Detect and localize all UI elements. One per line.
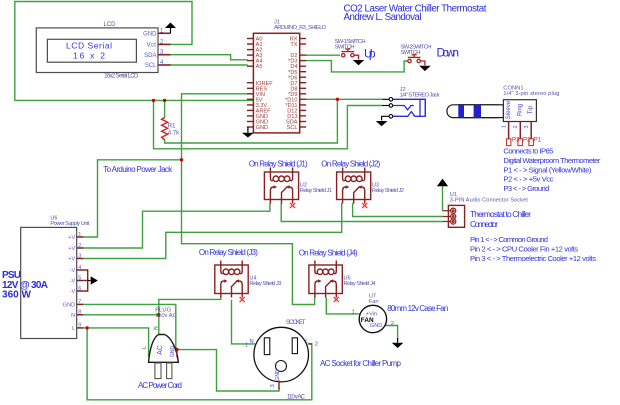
svg-text:1/4" 3-pin stereo plug: 1/4" 3-pin stereo plug [503,91,559,97]
svg-text:1: 1 [245,343,248,349]
wire D2 to SW1 [306,54,339,56]
PSU -V tie bracket [83,270,87,291]
svg-text:GND: GND [143,31,157,37]
wire VIN to PSU +V1 and relay J4 feed [182,94,315,305]
junction 5V rail / R1 [163,99,166,102]
svg-text:AC: AC [157,345,164,355]
svg-text:Pin 1 < - > Common Ground: Pin 1 < - > Common Ground [470,235,548,244]
Arduino pins [247,39,306,128]
svg-text:2: 2 [391,321,394,327]
svg-text:Andrew L. Sandoval: Andrew L. Sandoval [344,12,422,23]
LCD value text [66,41,112,61]
IC J1 ARDUINO_R3_SHIELD outline [253,33,299,133]
svg-text:P2: P2 [523,138,531,144]
svg-text:110v AC: 110v AC [155,313,176,319]
wire U1 pin1 to ground [442,187,444,211]
connector J2 1/4 stereo jack [382,98,393,121]
LCD module box [36,28,158,73]
wire plug GND to socket GND [178,350,279,391]
svg-text:Relay Shield J1: Relay Shield J1 [300,188,332,194]
svg-text:L: L [142,346,148,349]
wire relay J2 common to U1 pin2 [353,204,443,217]
svg-text:LCD Serial: LCD Serial [66,41,112,51]
wire PSU +V1 up [83,160,181,237]
svg-text:360 W: 360 W [2,289,32,300]
svg-text:GND: GND [275,369,281,381]
note PSU rating [2,270,48,300]
svg-text:1: 1 [352,310,355,316]
svg-text:On Relay Shield (J4): On Relay Shield (J4) [299,249,358,258]
svg-text:AC Power Cord: AC Power Cord [138,381,182,390]
svg-text:Power Supply Unit: Power Supply Unit [50,221,89,227]
svg-text:L: L [72,326,75,332]
svg-text:On Relay Shield (J3): On Relay Shield (J3) [199,248,258,257]
svg-text:To Arduino Power Jack: To Arduino Power Jack [103,165,173,174]
svg-text:LCD: LCD [104,22,117,28]
svg-text:N: N [250,339,254,345]
connector U1 3-pin audio socket [448,205,464,227]
svg-text:1: 1 [78,232,81,238]
relay U5 Relay Shield J4 [309,261,342,298]
ground symbol Arduino GND [242,127,254,138]
wire PSU L to plug L [83,328,148,356]
socket AC outlet [254,327,309,382]
switch SW1 [342,49,359,60]
relay U2 Relay Shield J1 [264,168,298,204]
wire D10 signal to jack tip [306,98,383,100]
svg-text:Ring: Ring [517,104,523,116]
svg-text:1/4" STEREO Jack: 1/4" STEREO Jack [400,93,440,99]
switch SW2 [408,55,425,66]
svg-text:P3: P3 [512,138,520,144]
svg-text:Tip: Tip [528,105,534,114]
note thermometer [503,147,600,194]
svg-text:Vcc: Vcc [146,43,156,49]
svg-text:7: 7 [78,299,81,305]
svg-text:3-PIN Audio Connector Socket: 3-PIN Audio Connector Socket [450,198,528,204]
svg-text:3: 3 [78,253,81,259]
wire signal branch to R1 [165,99,338,143]
svg-text:N: N [71,313,75,319]
wire R1 top to 5V rail [164,100,166,117]
ground symbol LCD GND [165,23,176,34]
svg-text:GND: GND [256,125,268,131]
svg-text:4: 4 [78,265,81,271]
wire LCD SCL to A5 [171,64,248,66]
socket GND stub [278,380,280,389]
relay U4 Relay Shield J3 [215,261,248,298]
svg-text:Sleeve: Sleeve [506,100,512,119]
wire relay J3 common to socket N [232,301,255,344]
junction plug GND [175,348,178,351]
svg-text:3: 3 [524,125,530,128]
svg-text:SOCKET: SOCKET [286,319,306,326]
svg-text:5: 5 [78,275,81,281]
svg-text:2: 2 [315,341,318,347]
CONN1 pins [509,122,532,139]
wire relay J3 contact to neutral [159,298,221,334]
svg-text:-V: -V [70,279,76,285]
ground symbol fan [392,338,404,348]
junction 5V rail / PSU branch [152,99,155,102]
svg-text:SDA: SDA [144,53,156,59]
svg-text:Up: Up [364,47,376,61]
junction D10 signal [336,98,339,101]
junction plug N [157,313,160,316]
svg-text:6: 6 [78,286,81,292]
svg-text:Relay Shield J4: Relay Shield J4 [344,281,376,287]
svg-text:SCL: SCL [287,125,298,131]
svg-text:4.7k: 4.7k [168,131,180,137]
wire D3 to SW2 [306,61,407,72]
wire relay J1 common to U1 pin3 [281,204,442,222]
ground symbol SW2 [419,66,431,71]
wire PSU N to plug N [83,314,159,316]
wire relay J4 common to fan pin1 [326,298,359,314]
svg-text:SWITCH: SWITCH [400,50,420,56]
wire fan pin2 to ground [386,326,397,340]
ground symbol SW1 [353,60,365,65]
resistor R1 4.7k [162,118,168,140]
svg-text:Fan: Fan [369,299,379,305]
CONN1 P sockets [506,139,533,146]
svg-text:Pin 2 < - > CPU Cooler Fin +12: Pin 2 < - > CPU Cooler Fin +12 volts [470,245,578,254]
connector CONN1 stereo plug [447,100,536,122]
ground symbol U1 (up) [437,179,448,187]
svg-text:A5: A5 [256,64,263,70]
svg-text:Relay Shield J2: Relay Shield J2 [372,188,404,194]
svg-text:P1 < - > Signal (Yellow/White): P1 < - > Signal (Yellow/White) [503,165,591,174]
junction PSU L [85,326,88,329]
relay U3 Relay Shield J2 [337,168,371,204]
svg-text:+V: +V [68,246,75,252]
svg-text:N: N [153,326,159,330]
svg-text:TX: TX [290,42,297,48]
svg-text:Pin 3 < - > Thermoelectric Coo: Pin 3 < - > Thermoelectric Cooler +12 vo… [470,254,596,263]
svg-text:ARDUINO_R3_SHIELD: ARDUINO_R3_SHIELD [274,25,326,31]
svg-text:+V: +V [68,235,75,241]
svg-text:P1: P1 [534,138,542,144]
svg-text:R1: R1 [168,124,176,130]
power supply U6 box [21,227,77,338]
svg-text:8: 8 [78,310,81,316]
svg-text:Digital Waterproom Thermometer: Digital Waterproom Thermometer [503,156,600,165]
svg-text:2: 2 [513,125,519,128]
svg-text:Relay Shield J3: Relay Shield J3 [249,281,281,287]
socket L stub [309,343,312,345]
svg-text:2: 2 [78,243,81,249]
wire LCD Vcc to Arduino 5V loop [15,2,254,101]
svg-text:Connects to IP65: Connects to IP65 [503,147,553,156]
svg-text:P3 < - > Ground: P3 < - > Ground [503,184,549,193]
wire 5V to jack ring [154,100,383,148]
LCD pin stubs [158,33,171,65]
note title [344,3,487,23]
wire PSU +V2 to relay J1 contact [83,204,270,249]
ground symbol PSU -V (right) [88,276,98,284]
svg-text:On Relay Shield (J2): On Relay Shield (J2) [321,159,380,168]
CONN1 pin numbers [502,125,531,129]
svg-text:3: 3 [270,384,276,387]
LCD pin numbers [160,28,164,66]
fan U7 [359,305,386,332]
svg-text:Thermostat to Chiller: Thermostat to Chiller [470,209,531,219]
plug GND stub [176,348,178,358]
svg-text:SWITCH: SWITCH [335,45,355,51]
svg-text:GND: GND [370,323,382,329]
LCD pin labels [143,31,157,69]
svg-text:9: 9 [78,323,81,329]
wire LCD SDA to A4 [171,55,248,60]
svg-text:-V: -V [70,289,76,295]
plug AC power cord [149,335,179,379]
svg-text:P2 < - > +5v Vcc: P2 < - > +5v Vcc [503,175,553,184]
junction VIN / +12V [180,158,183,161]
wire PSU +V3 to relay J2 contact [83,204,341,259]
svg-text:On Relay Shield (J1): On Relay Shield (J1) [249,159,308,168]
svg-text:AC Socket for Chiller Pump: AC Socket for Chiller Pump [320,359,402,368]
svg-text:GND: GND [170,346,176,358]
svg-text:+V: +V [68,257,75,263]
svg-text:SCL: SCL [145,63,157,69]
note thermostat connector [470,209,531,229]
svg-text:Down: Down [437,46,460,60]
svg-text:110 v AC: 110 v AC [287,394,306,401]
svg-text:-V: -V [70,268,76,274]
svg-text:80mm 12v Case Fan: 80mm 12v Case Fan [387,304,448,313]
CONN1 pin names rotated [506,100,534,119]
ground symbol J2 sleeve [376,121,388,126]
svg-text:1: 1 [502,125,508,128]
wire PSU GND to plug GND [83,304,176,347]
svg-text:GND: GND [63,303,75,309]
svg-text:Connector: Connector [470,219,498,229]
wire PSU L to socket L via bottom [87,328,312,400]
svg-text:16x2 Serial LCD: 16x2 Serial LCD [104,74,139,80]
